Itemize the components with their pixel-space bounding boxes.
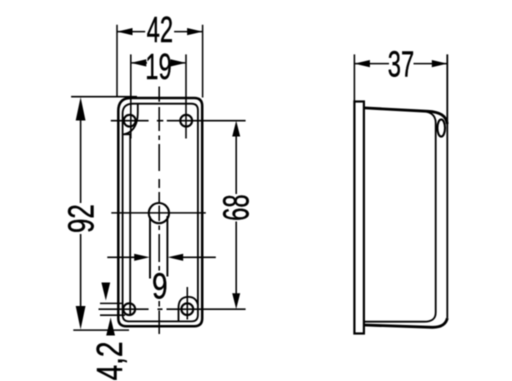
svg-text:4,2: 4,2 — [90, 341, 130, 380]
svg-text:37: 37 — [388, 45, 414, 85]
svg-text:42: 42 — [147, 10, 173, 50]
svg-text:92: 92 — [61, 204, 101, 233]
svg-text:68: 68 — [217, 194, 257, 220]
svg-text:9: 9 — [152, 266, 168, 306]
svg-text:19: 19 — [145, 47, 171, 87]
